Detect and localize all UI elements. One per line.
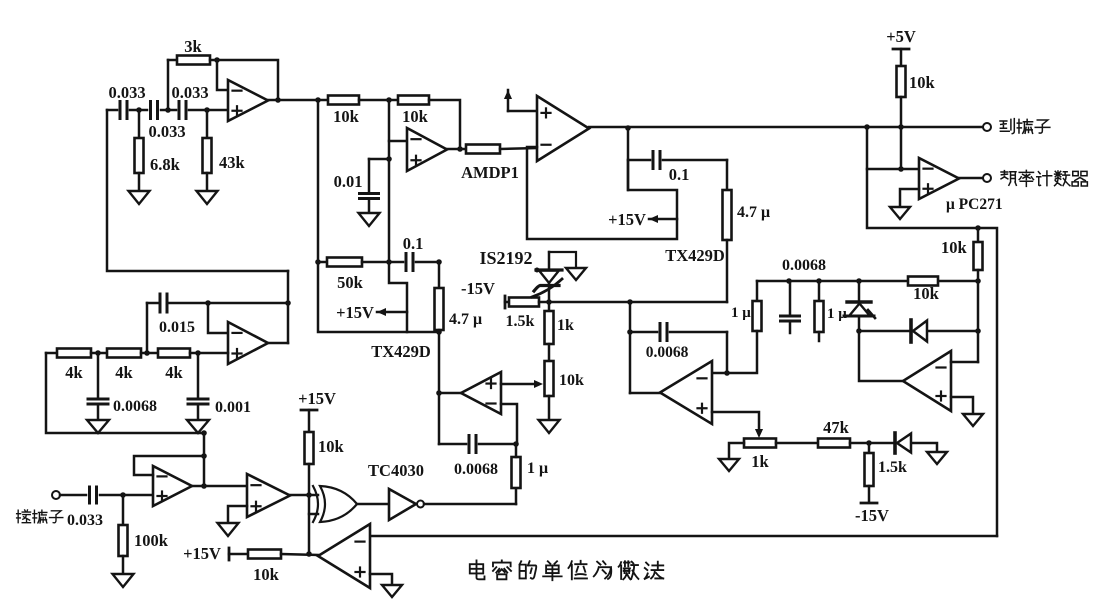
svg-text:43k: 43k <box>219 153 246 172</box>
svg-text:-15V: -15V <box>855 506 889 525</box>
svg-text:3k: 3k <box>184 37 202 56</box>
svg-text:0.0068: 0.0068 <box>113 398 157 415</box>
svg-text:10k: 10k <box>253 565 280 584</box>
svg-text:TC4030: TC4030 <box>368 461 424 480</box>
svg-text:0.033: 0.033 <box>108 83 145 102</box>
svg-text:4.7 μ: 4.7 μ <box>449 311 482 328</box>
svg-text:+15V: +15V <box>183 544 221 563</box>
svg-text:47k: 47k <box>823 418 850 437</box>
svg-text:0.1: 0.1 <box>669 165 690 184</box>
svg-text:1k: 1k <box>557 317 574 334</box>
svg-text:4.7 μ: 4.7 μ <box>737 204 770 221</box>
svg-text:6.8k: 6.8k <box>150 155 181 174</box>
svg-text:10k: 10k <box>909 73 936 92</box>
svg-text:10k: 10k <box>941 238 968 257</box>
svg-text:0.0068: 0.0068 <box>782 257 826 274</box>
svg-text:1 μ: 1 μ <box>731 305 751 321</box>
svg-text:+15V: +15V <box>336 303 374 322</box>
svg-text:+5V: +5V <box>886 27 916 46</box>
svg-text:10k: 10k <box>913 284 940 303</box>
svg-text:TX429D: TX429D <box>371 342 431 361</box>
svg-text:AMDP1: AMDP1 <box>461 163 519 182</box>
svg-text:μ PC271: μ PC271 <box>946 196 1003 213</box>
svg-text:0.01: 0.01 <box>334 172 363 191</box>
svg-text:0.033: 0.033 <box>171 83 208 102</box>
svg-text:0.1: 0.1 <box>403 234 424 253</box>
svg-text:4k: 4k <box>115 363 133 382</box>
svg-text:4k: 4k <box>65 363 83 382</box>
svg-text:+15V: +15V <box>608 210 646 229</box>
svg-text:100k: 100k <box>134 531 169 550</box>
svg-text:1.5k: 1.5k <box>506 313 535 330</box>
svg-text:0.0068: 0.0068 <box>646 344 689 361</box>
svg-text:0.033: 0.033 <box>148 122 185 141</box>
svg-text:IS2192: IS2192 <box>479 248 532 268</box>
svg-text:10k: 10k <box>333 107 360 126</box>
svg-text:10k: 10k <box>402 107 429 126</box>
svg-text:-15V: -15V <box>461 279 495 298</box>
svg-text:4k: 4k <box>165 363 183 382</box>
svg-text:0.015: 0.015 <box>159 319 195 336</box>
svg-text:1 μ: 1 μ <box>827 306 847 322</box>
svg-text:10k: 10k <box>318 437 345 456</box>
svg-text:10k: 10k <box>559 372 584 389</box>
svg-text:TX429D: TX429D <box>665 246 725 265</box>
svg-text:0.033: 0.033 <box>67 512 103 529</box>
svg-text:1k: 1k <box>751 452 769 471</box>
svg-text:1.5k: 1.5k <box>878 459 907 476</box>
svg-text:0.0068: 0.0068 <box>454 461 498 478</box>
svg-text:50k: 50k <box>337 273 364 292</box>
svg-text:1 μ: 1 μ <box>527 460 548 477</box>
svg-text:0.001: 0.001 <box>215 399 251 416</box>
svg-text:+15V: +15V <box>298 389 336 408</box>
